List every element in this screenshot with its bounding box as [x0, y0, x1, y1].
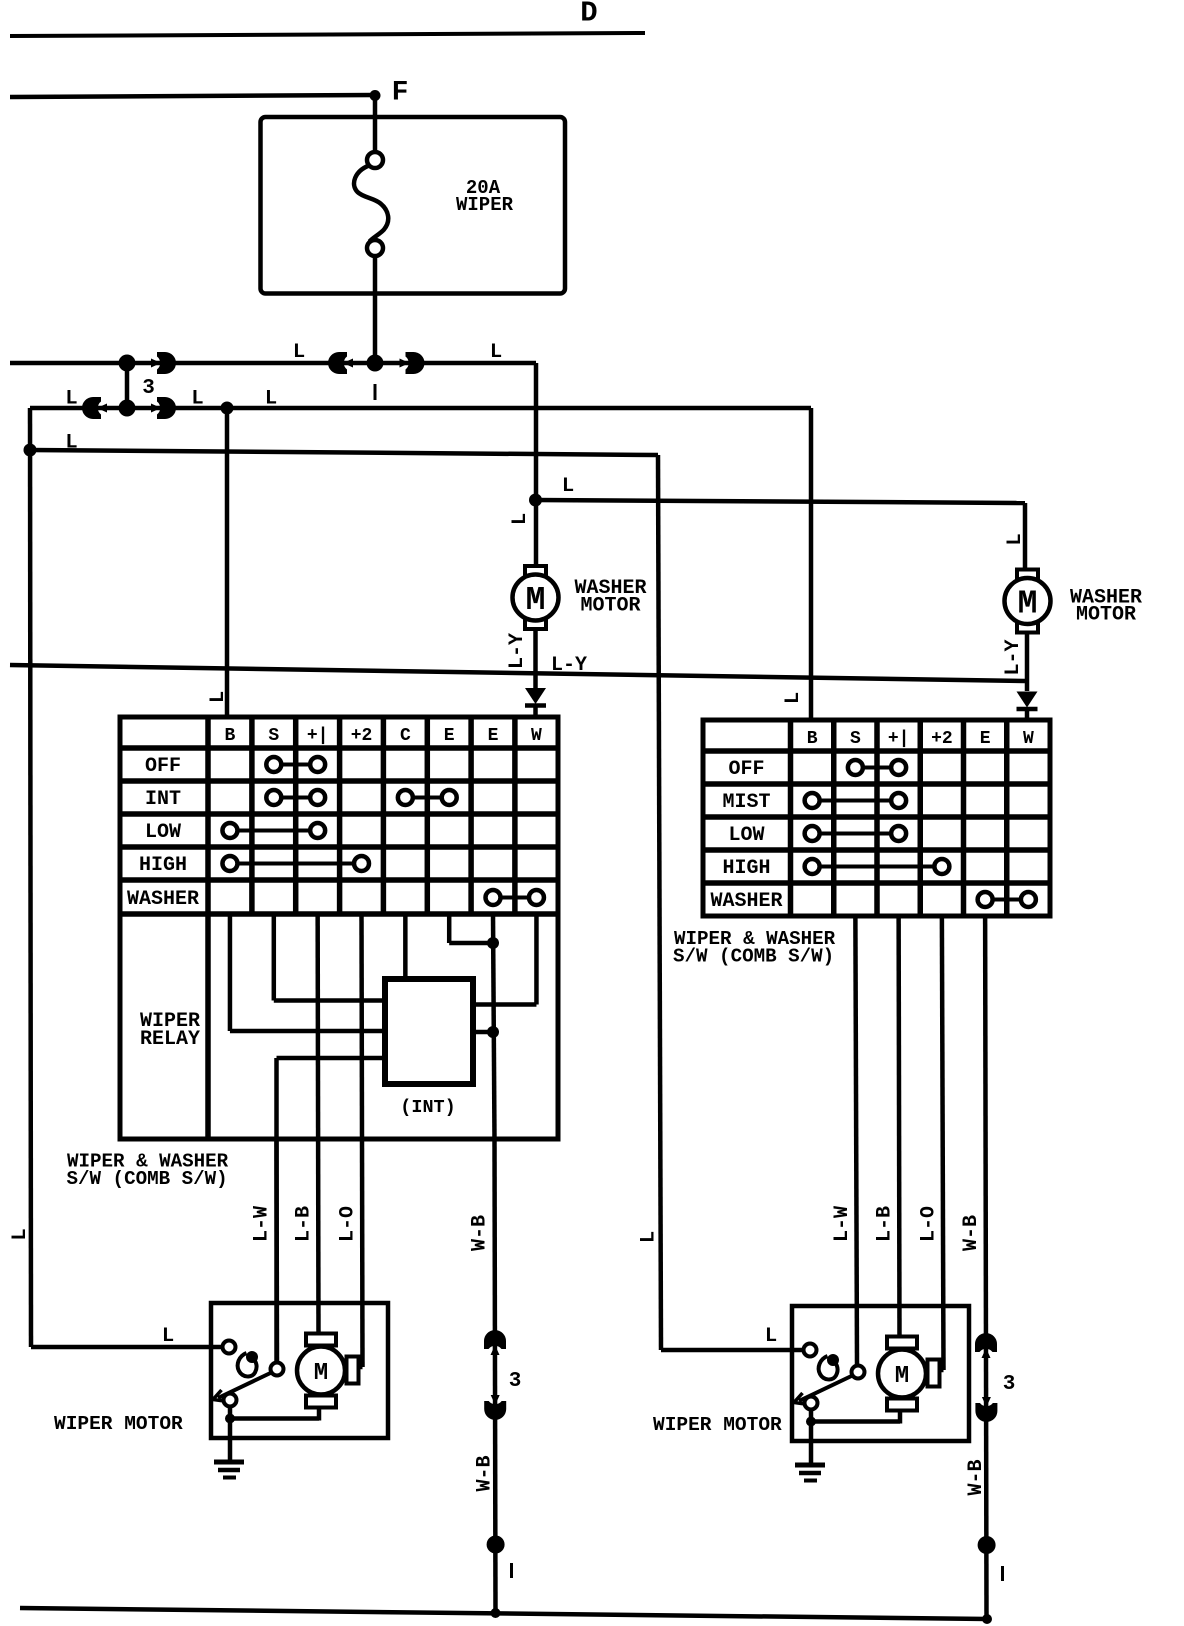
switch right table grid [703, 720, 1050, 916]
svg-text:L: L [782, 692, 805, 704]
wire link row1-row2 [125, 363, 130, 408]
svg-text:MIST: MIST [722, 791, 770, 814]
svg-text:L: L [65, 388, 77, 411]
svg-text:S: S [268, 726, 279, 746]
svg-text:WIPER MOTOR: WIPER MOTOR [54, 1413, 183, 1435]
svg-text:3: 3 [1003, 1373, 1016, 1396]
junction relay-E2 [487, 1026, 499, 1038]
switch left contact HIGH B-+2 [238, 862, 353, 866]
svg-text:B: B [807, 729, 818, 749]
wire E jog to E2 [447, 914, 452, 943]
svg-text:L: L [509, 513, 532, 525]
switch right outer box [703, 720, 1050, 916]
wire S down right L-W [855, 916, 857, 1365]
connector row1 right [151, 352, 176, 374]
wire bus row3 L [30, 450, 658, 455]
node D section line [10, 33, 645, 36]
svg-text:(INT): (INT) [400, 1097, 456, 1118]
svg-text:HIGH: HIGH [139, 854, 187, 877]
svg-text:L: L [1004, 533, 1027, 545]
connector row1 pair right [400, 352, 425, 374]
wire B column feed right switch [809, 408, 814, 722]
svg-text:L-Y: L-Y [551, 654, 587, 677]
connector 3 upper left [484, 1330, 506, 1355]
wire +1 down right L-B [896, 916, 901, 1339]
svg-text:WIPER MOTOR: WIPER MOTOR [653, 1414, 782, 1436]
switch right contact HIGH B-+2 [821, 865, 934, 869]
svg-text:+|: +| [307, 726, 329, 746]
svg-text:L: L [490, 341, 502, 364]
wire right washer motor feed down [1023, 503, 1028, 571]
relay box INT [385, 979, 473, 1084]
connector dot row1 node 1 [367, 355, 384, 372]
wire F feed [10, 95, 375, 97]
wire long horizontal net [10, 665, 1025, 681]
wire +1 column down L-B [315, 914, 320, 1336]
svg-text:L: L [638, 1231, 661, 1243]
svg-text:L: L [65, 432, 77, 455]
wire left diode to switch W [533, 705, 538, 719]
svg-text:W: W [531, 726, 542, 746]
svg-text:W-B: W-B [965, 1459, 988, 1495]
wire bus row1 L [10, 361, 536, 366]
junction row3 left [24, 444, 37, 457]
connector row1 pair left [328, 352, 353, 374]
pin label 1 right [1001, 1566, 1004, 1581]
connector row2 left [82, 397, 107, 419]
svg-text:WASHER: WASHER [127, 888, 199, 911]
washer motor right M [1005, 570, 1051, 633]
svg-text:OFF: OFF [145, 755, 181, 778]
svg-text:+2: +2 [351, 726, 373, 746]
svg-text:L: L [293, 341, 305, 364]
svg-text:INT: INT [145, 788, 181, 811]
svg-text:F: F [392, 78, 409, 109]
svg-text:D: D [580, 0, 597, 30]
svg-text:L-W: L-W [831, 1206, 854, 1242]
svg-text:L: L [265, 388, 277, 411]
connector dot row1 [119, 355, 136, 372]
svg-text:M: M [1018, 586, 1038, 623]
switch left table grid [120, 717, 558, 1139]
wire left feed down to left wiper motor [30, 408, 31, 1347]
connector dot 1 right [978, 1536, 996, 1554]
node F junction [370, 90, 381, 101]
wire right washer motor lead down [1025, 633, 1030, 692]
svg-text:L-B: L-B [874, 1206, 897, 1242]
svg-text:MOTOR: MOTOR [580, 595, 640, 618]
wire C to relay top [403, 914, 408, 981]
switch left contact WASHER E-W [502, 896, 528, 900]
wire B to relay [228, 914, 233, 1031]
svg-text:L-W: L-W [251, 1206, 274, 1242]
connector 3 lower left [484, 1395, 506, 1420]
svg-text:3: 3 [142, 377, 155, 400]
junction E-E2 [487, 937, 499, 949]
svg-text:WASHER: WASHER [710, 890, 782, 913]
svg-text:L: L [207, 691, 230, 703]
diode right washer [1017, 692, 1038, 708]
svg-text:3: 3 [509, 1370, 522, 1393]
svg-text:+|: +| [888, 729, 910, 749]
wire +2 down right L-O [942, 916, 944, 1370]
wire left washer motor lead down [533, 629, 538, 688]
switch right contact WASHER E-W [994, 898, 1020, 902]
fuse 20A WIPER box [261, 117, 566, 294]
junction row2 to switch B [221, 402, 234, 415]
svg-text:W-B: W-B [469, 1215, 492, 1251]
connector dot row2 [119, 400, 136, 417]
svg-text:L: L [191, 388, 203, 411]
switch left contact INT C-E [414, 796, 441, 800]
svg-text:L-Y: L-Y [506, 633, 529, 669]
svg-text:MOTOR: MOTOR [1076, 604, 1136, 627]
svg-text:M: M [314, 1360, 328, 1387]
svg-text:W-B: W-B [474, 1455, 497, 1491]
switch left outer box [120, 717, 558, 1139]
svg-text:L-Y: L-Y [1002, 639, 1025, 675]
wire feed down to right wiper motor [658, 455, 661, 1350]
wire E2 column down W-B upper [493, 914, 495, 1139]
svg-text:S/W (COMB S/W): S/W (COMB S/W) [673, 946, 834, 968]
svg-text:OFF: OFF [728, 758, 764, 781]
wire S to relay [272, 914, 277, 1001]
wire W to relay [534, 914, 539, 1005]
wire L-W into terminal [274, 1139, 279, 1362]
pin label 1 left [510, 1563, 513, 1578]
wire E down right W-B [985, 916, 986, 1619]
svg-text:HIGH: HIGH [722, 857, 770, 880]
wire bus row2 L [30, 406, 811, 411]
wire relay pin to L-W [277, 1056, 386, 1061]
svg-text:E: E [488, 726, 499, 746]
switch right contact LOW B-+1 [821, 832, 891, 836]
svg-text:L-O: L-O [337, 1206, 360, 1242]
fuse element [367, 152, 383, 168]
svg-text:S/W (COMB S/W): S/W (COMB S/W) [67, 1168, 228, 1190]
svg-text:W-B: W-B [960, 1215, 983, 1251]
connector 3 upper right [975, 1333, 997, 1358]
connector dot 1 left [487, 1536, 505, 1554]
wire L into right wiper motor [661, 1348, 804, 1353]
wire B column feed left switch [225, 408, 230, 719]
wire +2 column down L-O [362, 914, 363, 1367]
wire washer feed down from row1 [534, 363, 539, 568]
switch right contact OFF S-+1 [864, 766, 890, 770]
svg-text:M: M [526, 582, 546, 619]
svg-text:L: L [765, 1325, 777, 1348]
svg-text:C: C [400, 726, 411, 746]
svg-text:LOW: LOW [145, 821, 181, 844]
svg-text:E: E [980, 729, 991, 749]
washer motor left M [513, 566, 559, 629]
svg-text:S: S [850, 729, 861, 749]
junction bottom bus right [982, 1614, 992, 1624]
svg-text:L: L [162, 1325, 174, 1348]
svg-text:B: B [225, 726, 236, 746]
connector 3 lower right [975, 1397, 997, 1422]
connector row2 right [151, 397, 176, 419]
wire washer branch to right [536, 500, 1026, 503]
wiper motor right [792, 1306, 969, 1481]
wire fuse top lead [373, 96, 378, 153]
svg-text:E: E [444, 726, 455, 746]
wire fuse bottom lead [373, 256, 378, 364]
junction washer feed split [529, 494, 542, 507]
svg-text:+2: +2 [931, 729, 953, 749]
pin label 1 below row1 [374, 384, 377, 400]
svg-text:RELAY: RELAY [140, 1028, 200, 1051]
wire right diode to switch W [1025, 708, 1030, 722]
wire W-B lower left [495, 1139, 496, 1613]
junction bottom bus left [491, 1608, 501, 1618]
switch right contact MIST B-+1 [821, 799, 891, 803]
svg-text:L: L [562, 475, 574, 498]
svg-text:M: M [895, 1363, 909, 1390]
switch left contact OFF S-+1 [282, 763, 309, 767]
svg-text:L-O: L-O [918, 1206, 941, 1242]
svg-text:W: W [1023, 729, 1034, 749]
svg-text:WIPER: WIPER [456, 194, 514, 216]
switch left contact LOW B-+1 [238, 829, 309, 833]
diode left washer [525, 688, 546, 704]
wire relay to E2 [473, 1030, 493, 1035]
wire bottom bus [20, 1608, 988, 1619]
svg-text:L-B: L-B [293, 1206, 316, 1242]
svg-text:LOW: LOW [728, 824, 764, 847]
wire L into left wiper motor [31, 1345, 223, 1350]
svg-text:L: L [9, 1228, 32, 1240]
wiper motor left [211, 1303, 388, 1478]
switch left contact INT S-+1 [282, 796, 309, 800]
